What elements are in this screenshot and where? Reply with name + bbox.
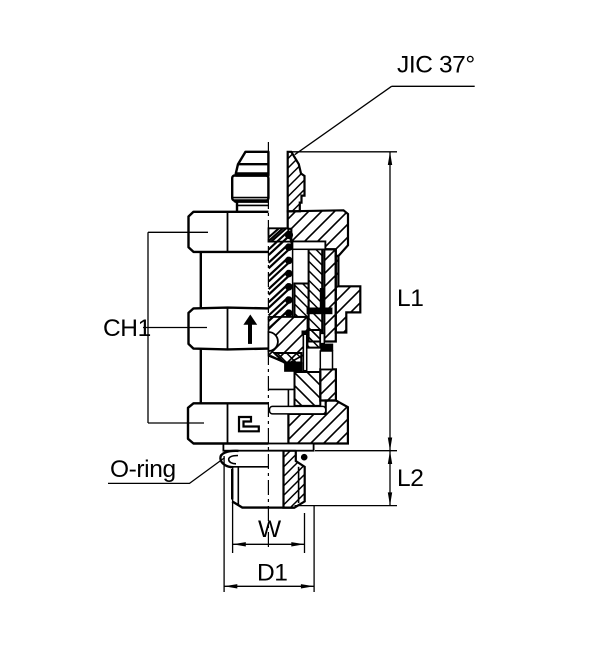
black seals [284, 288, 333, 461]
stud left outline [220, 451, 238, 467]
svg-text:CH1: CH1 [103, 315, 151, 342]
svg-text:L2: L2 [397, 465, 423, 492]
left outline view [188, 152, 268, 508]
leader line JIC 37 [295, 86, 475, 154]
ball poppet [268, 332, 278, 351]
white pockets / slots [270, 242, 333, 414]
svg-text:W: W [258, 516, 282, 543]
spring guide [269, 242, 293, 317]
seat cone line [270, 356, 288, 364]
centerline [267, 142, 269, 550]
dimension L2 [295, 451, 424, 506]
flange [288, 401, 348, 444]
washer [223, 444, 313, 451]
body lower wall [320, 369, 336, 400]
lower hex [188, 403, 268, 443]
dimension D1 [224, 456, 314, 592]
dimension W [233, 467, 305, 553]
svg-text:L1: L1 [397, 285, 423, 312]
spring [269, 231, 289, 329]
dimension CH1 [103, 232, 208, 423]
cartridge sleeve hatched [274, 249, 322, 406]
stud wall right [284, 451, 305, 508]
neck 1 [200, 252, 202, 308]
upper hex [189, 212, 269, 252]
bottom edges of stud right [268, 451, 298, 508]
svg-text:D1: D1 [257, 560, 288, 587]
leader line O-ring [108, 456, 225, 483]
dimension L1 [291, 152, 423, 451]
C mark [239, 417, 259, 431]
neck 2 [200, 349, 202, 403]
body upper-right section hatch [284, 152, 361, 508]
seat corner [302, 331, 308, 336]
JIC nose [236, 152, 269, 176]
spring-cavity floor lines above white bar [269, 389, 295, 406]
svg-text:JIC 37°: JIC 37° [397, 52, 475, 79]
spring closed top coils [269, 228, 292, 241]
stem wall right (JIC nose in section) [288, 152, 305, 212]
upper body block [288, 210, 348, 256]
flow arrow [243, 315, 257, 344]
poppet guide hatched [269, 317, 308, 364]
middle hex [189, 308, 269, 350]
svg-text:O-ring: O-ring [110, 456, 176, 483]
right wall mid + ring [336, 256, 361, 333]
body band B [324, 249, 336, 341]
